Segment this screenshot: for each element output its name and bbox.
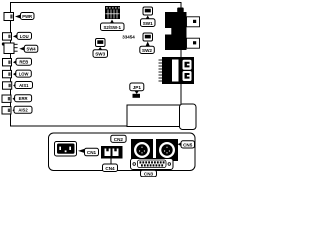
board outline top/left/bottom <box>11 3 182 127</box>
svg-text:LOW: LOW <box>19 72 29 77</box>
svg-text:CN3: CN3 <box>144 172 154 177</box>
IC U1 white stripe <box>172 60 179 82</box>
LED component LOW <box>3 70 12 77</box>
IC U1 body <box>162 57 194 84</box>
callout arrow AIS2 <box>13 108 15 112</box>
svg-text:SW3: SW3 <box>95 52 105 57</box>
LED component LOU <box>3 33 12 40</box>
callout arrow PWR <box>15 14 21 18</box>
svg-text:AIS1: AIS1 <box>19 83 29 88</box>
LED component ERR <box>2 95 11 102</box>
jumper SW1 <box>143 7 153 15</box>
svg-text:CN4: CN4 <box>105 166 115 171</box>
svg-text:CN5: CN5 <box>183 143 193 148</box>
LED component PWR <box>4 13 14 21</box>
label AIS2 <box>14 106 32 113</box>
LED component AIS1 <box>3 82 12 89</box>
callout arrow LOW <box>13 72 16 76</box>
label CN4 <box>103 164 118 172</box>
DB25 connector shell <box>131 159 174 170</box>
callout pointer SW3 <box>98 47 102 50</box>
module box A <box>127 105 180 127</box>
jumper SW2 <box>143 33 153 41</box>
leader line CN3 <box>150 170 152 172</box>
label CN5 <box>181 141 195 148</box>
RJ11 jack opening 2 <box>187 38 200 48</box>
rear panel plate <box>49 133 196 171</box>
LED component AIS2 <box>2 107 11 114</box>
callout arrow REB <box>13 60 17 64</box>
switch component SW4 <box>4 43 18 54</box>
IC U1 socket window 2 <box>183 71 192 81</box>
callout pointer JP1 <box>135 91 139 94</box>
svg-text:CN1: CN1 <box>87 150 97 155</box>
svg-text:CN2: CN2 <box>114 137 124 142</box>
IC U1 socket window 1 <box>183 60 192 70</box>
AC power inlet CN1 <box>55 142 77 157</box>
callout pointer SW2 <box>146 42 150 47</box>
label LOU <box>17 32 32 39</box>
leader line CN4 <box>110 159 112 165</box>
label SW4 <box>24 45 38 52</box>
jumper SW3 <box>96 39 106 47</box>
svg-text:33454: 33454 <box>122 35 135 40</box>
label CN1 <box>85 148 99 156</box>
small tab on top of jack body <box>177 8 184 13</box>
board right edge segment 1 <box>180 50 182 57</box>
label CN3 <box>141 170 157 177</box>
svg-text:PWR: PWR <box>22 14 32 19</box>
voltage switch <box>101 146 123 159</box>
jumper JP1 <box>133 94 141 98</box>
label REB <box>16 58 32 65</box>
svg-text:ERR: ERR <box>19 96 28 101</box>
label SW1 <box>141 19 156 27</box>
callout arrow ERR <box>13 97 16 101</box>
svg-text:S2/SW-1: S2/SW-1 <box>103 25 121 30</box>
label AIS1 <box>15 82 33 89</box>
callout arrow SW4 <box>19 47 25 51</box>
label SW2 <box>140 46 155 53</box>
svg-text:SW2: SW2 <box>142 48 152 53</box>
corner module B <box>180 104 197 130</box>
switch SW4 pin-1 dot <box>2 42 5 45</box>
label ERR <box>15 95 32 102</box>
callout arrow CN5 <box>178 142 182 146</box>
label SW3 <box>93 50 108 58</box>
callout pointer DIP label <box>110 20 114 24</box>
svg-text:AIS2: AIS2 <box>18 108 28 113</box>
callout pointer SW1 <box>146 16 150 20</box>
callout arrow CN1 <box>78 149 85 153</box>
label JP1 <box>130 83 144 91</box>
DIN connector 2 <box>156 139 178 161</box>
label CN2 <box>111 135 126 142</box>
RJ11 jack body (black) <box>165 12 187 50</box>
board right edge segment 2 <box>180 84 182 105</box>
label S2/SW-1 <box>101 23 125 31</box>
DIN connector 1 <box>131 139 153 161</box>
label PWR <box>21 13 35 20</box>
svg-text:SW4: SW4 <box>27 47 37 52</box>
callout arrow AIS1 <box>13 83 15 87</box>
svg-text:LOU: LOU <box>20 34 29 39</box>
RJ11 body notch <box>165 28 172 35</box>
IC U1 pins <box>159 60 163 81</box>
DIP switch block S2 <box>105 6 120 19</box>
svg-text:SW1: SW1 <box>143 21 153 26</box>
label LOW <box>16 70 31 77</box>
svg-text:REB: REB <box>19 60 28 65</box>
svg-text:JP1: JP1 <box>133 85 142 90</box>
LED component REB <box>3 59 12 66</box>
RJ11 jack opening 1 <box>187 17 200 27</box>
callout arrow LOU <box>13 34 18 38</box>
